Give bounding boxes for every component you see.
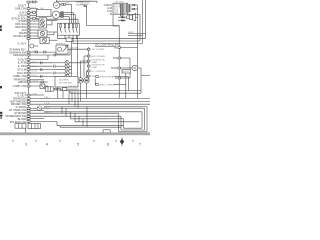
connector J1 pin 28 [27, 121, 57, 123]
TCM left rail extension [113, 14, 119, 26]
cascade drop 2 [65, 108, 67, 116]
wire feed bus y19 [36, 19, 78, 23]
gauge unit B1 box [39, 18, 47, 28]
bulb L4 [42, 38, 46, 42]
connector J1 pin 16 [27, 65, 53, 67]
blower drop 3 [68, 91, 70, 105]
connector J1 body line [28, 1, 30, 127]
relay block K1 box [58, 23, 80, 35]
svg-text:0.5 W: 0.5 W [44, 103, 51, 105]
svg-text:CRK/MAIN: CRK/MAIN [13, 53, 26, 57]
connector J1 pin 18 [27, 76, 53, 78]
inline connector on K2 feed [35, 51, 46, 53]
cascade row y121.8 [75, 121, 139, 123]
wire M2 a [59, 13, 73, 24]
net stub 2 [128, 35, 143, 37]
svg-text:0.85 BW: 0.85 BW [68, 86, 77, 88]
relay pins row 1 [96, 76, 129, 79]
TCM pin row 2 [120, 6, 131, 8]
svg-text:IL TNS: IL TNS [18, 64, 26, 68]
svg-text:BLW LO RELAY: BLW LO RELAY [100, 83, 116, 86]
connector J1 pin 27b [27, 118, 44, 120]
J3 pin 2 [113, 56, 130, 60]
resistor pack R2 [40, 84, 45, 89]
servo motor M3 [132, 65, 141, 71]
svg-text:12V POWER: 12V POWER [92, 49, 105, 51]
illumination lamp L5 [41, 61, 72, 65]
TCM pin row 6 [120, 14, 123, 16]
connector J1 pin 19 [27, 81, 48, 83]
TCM pin row 1 [120, 4, 137, 6]
svg-text:0.5 Y: 0.5 Y [32, 62, 38, 64]
svg-text:IL ATM: IL ATM [18, 61, 27, 65]
connector J1 pin 24 / bus C [27, 103, 150, 105]
connector J1 pin 10 [27, 32, 38, 34]
wire row y89 [54, 86, 78, 90]
svg-text:ILL CONTROL: ILL CONTROL [92, 71, 107, 73]
wire M1 to node top [57, 0, 72, 23]
connector J1 pin 13 [27, 51, 56, 53]
wire K1 out 1 [58, 35, 146, 39]
net label top [76, 2, 90, 6]
wire U2 pin2 stub [84, 56, 87, 78]
wire M3 down [141, 68, 150, 91]
svg-text:CH/BL OW: CH/BL OW [13, 84, 27, 88]
TCM pin row 4 [120, 10, 131, 12]
rear connector J3 rail [118, 44, 120, 98]
wire K1 to blower feed [77, 35, 79, 76]
connector J1 pin 17b [27, 72, 53, 74]
connector J1 pin 18b [27, 79, 44, 81]
controller U2 pin 5 [87, 70, 106, 73]
zone number 3 [25, 141, 28, 146]
zone tick 2 [35, 140, 37, 142]
cascade drop 7 [86, 107, 88, 128]
gauge unit B2 box [38, 30, 47, 37]
zone number 7 [139, 141, 142, 146]
wire right riser 3 [142, 0, 144, 44]
label plate N1 [122, 69, 130, 76]
cascade drop 3 [70, 112, 72, 119]
sheet edge mark lower [0, 112, 2, 119]
svg-text:0.5 G: 0.5 G [32, 75, 38, 77]
wire label above M1 feed [66, 3, 69, 5]
svg-text:0.5 W: 0.5 W [32, 17, 39, 19]
connector J1 pin 11 [27, 35, 38, 37]
illumination lamp L6 [54, 64, 72, 68]
sheet edge mark upper [0, 25, 2, 31]
TCM U1 box [113, 1, 128, 15]
left harness labels [5, 4, 26, 124]
svg-text:RH ILM: RH ILM [17, 71, 27, 75]
motor M1 [53, 2, 59, 8]
zone tick 4 [93, 140, 95, 142]
zone tick 1 [12, 140, 14, 142]
svg-text:0.85 L: 0.85 L [44, 97, 51, 99]
svg-text:0.5 B: 0.5 B [32, 1, 38, 3]
cascade drop 1 [61, 107, 63, 114]
svg-text:0.85 W: 0.85 W [32, 81, 40, 83]
TCM U1 inner labels [114, 3, 121, 14]
connector J1 pin 15 [27, 62, 53, 64]
relay K2 box [56, 43, 68, 54]
connector J1 pin 20 [27, 85, 48, 87]
wire right riser 2 [128, 15, 140, 42]
svg-text:0.85 R: 0.85 R [44, 112, 51, 114]
svg-text:0.85 WB: 0.85 WB [70, 47, 79, 49]
relay pins row 2 [96, 83, 126, 86]
bottom wire run b [60, 126, 121, 128]
svg-text:ONE OW: ONE OW [15, 6, 27, 10]
zone tick 5 [115, 140, 117, 142]
diode D1 [118, 16, 126, 19]
svg-text:B/UP: B/UP [129, 32, 135, 34]
J3 pin 1 [114, 45, 138, 49]
nest net D [44, 107, 147, 132]
zone number 6 [107, 141, 110, 146]
return bus y90 [60, 90, 141, 92]
shield terminal box [103, 130, 110, 133]
connector J1 pin 25b [27, 110, 44, 112]
sensor G2 [30, 44, 38, 48]
svg-text:HI RLY: HI RLY [123, 71, 130, 73]
controller U2 pin 2 [87, 55, 105, 58]
net stub 1 [128, 32, 146, 34]
J3 pin 4 [115, 76, 130, 80]
relay K1 contact 5 [76, 24, 78, 33]
connector J1 pin 14 [27, 54, 70, 57]
blower drop 2 [62, 91, 64, 99]
controller U2 pin 1 [87, 48, 104, 51]
zone tick 6 [132, 140, 134, 142]
blower drop 1 [57, 87, 59, 98]
svg-text:BLOWER: BLOWER [59, 80, 69, 82]
bottom wire run a [57, 122, 124, 126]
connector J1 pin 9 [27, 29, 38, 31]
nest net E [121, 108, 145, 130]
J3 pin 3 [111, 66, 132, 70]
wire K1 out 3 [73, 35, 143, 43]
connector J1 pin 5 [27, 18, 38, 20]
TCM pin column [121, 4, 123, 14]
bulb L1 [41, 19, 45, 23]
wire K1 out 2 [69, 35, 140, 41]
diode D2 [118, 19, 126, 22]
nest net F [44, 112, 142, 128]
connector J1 pin 14b riser row [27, 55, 48, 61]
ground block GB2 [28, 123, 40, 128]
lamp common riser [71, 63, 73, 77]
controller U2 pin 3 [87, 59, 105, 64]
connector J1 pin 23 / bus B [27, 101, 150, 103]
svg-text:SW: SW [113, 56, 118, 60]
wire top net to zone 5 [57, 1, 98, 3]
cascade drop 4 [74, 113, 76, 122]
svg-text:GND: GND [114, 12, 119, 14]
cascade row y118.8 [71, 118, 111, 120]
TCM pin row 5 [120, 12, 129, 14]
wire B1 out a [47, 20, 58, 22]
gauge unit B3 box [40, 37, 49, 43]
svg-text:BLW HI RELAY: BLW HI RELAY [100, 76, 116, 79]
bulb L2 [41, 23, 45, 27]
wire loop from TCM area down [87, 6, 120, 44]
controller U2 pin rail [88, 47, 90, 79]
wire fuse to lamp rail [71, 42, 73, 64]
blower unit box U3 [55, 76, 78, 87]
relay K1 contact 3 [68, 24, 70, 33]
svg-text:ST/AB ILM: ST/AB ILM [13, 34, 27, 38]
motor M2 blower [52, 11, 59, 18]
relay riser b [128, 77, 130, 91]
svg-text:J/B: J/B [40, 8, 44, 10]
connector J1 pin 17 [27, 69, 53, 71]
zone tick 3 [59, 140, 61, 142]
relay pin riser [94, 78, 96, 84]
wire B0 to M2 [51, 14, 52, 16]
relay riser a [125, 77, 127, 99]
illumination lamp L7 [41, 68, 72, 72]
blower drop 4 [71, 91, 73, 102]
J3 riser [129, 58, 131, 78]
diode assy D4 [84, 78, 89, 99]
wire B1 out b [47, 21, 52, 25]
cascade drop 5 [78, 116, 80, 122]
buzzer BZ1 [130, 13, 138, 20]
wire label K2 [70, 47, 79, 49]
connector J1 pin 12 [27, 38, 40, 40]
svg-text:AT 2WD: AT 2WD [116, 1, 124, 4]
svg-text:WS BLW OW: WS BLW OW [10, 120, 27, 124]
wire K1 out 4 [76, 35, 78, 39]
svg-text:A/BLW: A/BLW [18, 80, 27, 84]
svg-text:LEAD: LEAD [92, 61, 98, 64]
wire M2 c [59, 17, 69, 24]
connector on M2 wires [61, 12, 63, 18]
blower drop 6 [77, 91, 79, 109]
wire K2 to controller [68, 49, 87, 55]
svg-text:ACC POWER: ACC POWER [92, 55, 106, 58]
resistor R1 [127, 16, 131, 19]
ground block GB1 [15, 124, 26, 129]
svg-text:0.5 L: 0.5 L [32, 7, 38, 9]
wire right riser 4 [145, 0, 147, 39]
junction box B0 [37, 8, 52, 17]
connector C7 [45, 87, 53, 91]
left connector strip of K1 [57, 35, 59, 39]
connector J1 pin 6 [27, 20, 39, 22]
frame band [0, 133, 150, 136]
zone pointer diamond [120, 137, 124, 146]
connector J1 pin 21 [27, 94, 44, 96]
controller U2 pin 6 [87, 75, 96, 78]
relay K1 contact 2 [64, 24, 66, 33]
connector J1 pin 26 [27, 112, 119, 114]
TCM external labels [104, 3, 113, 16]
sheet edge mark middle [0, 86, 2, 88]
connector J1 pin 22 / bus A [27, 98, 150, 100]
TCM pin row 3 [120, 8, 137, 10]
svg-text:MOTOR RES: MOTOR RES [59, 82, 73, 84]
return bus y93 [70, 91, 141, 94]
svg-text:0.5 B: 0.5 B [32, 94, 38, 96]
zone number 4 [46, 141, 49, 146]
diode assy D3 [78, 78, 83, 102]
svg-text:B: B [110, 12, 112, 16]
svg-text:IL OUT: IL OUT [17, 41, 26, 45]
connector J1 pin 3 [27, 12, 38, 14]
wire right riser 1 [137, 5, 139, 98]
connector J1 pin 2 [27, 8, 38, 10]
A/C controller U2 header [95, 43, 119, 47]
wire B3 out [49, 39, 57, 41]
connector J1 pin 25 with inline sensor G1 [27, 106, 145, 111]
illumination lamp L8 [41, 74, 72, 78]
svg-text:LEAD: LEAD [92, 66, 98, 69]
relay K1 contact 1 [60, 24, 62, 33]
svg-text:A/BAG SYS: A/BAG SYS [80, 0, 92, 3]
blower drop 5 [74, 91, 76, 107]
wire B2 out [47, 32, 58, 35]
ground drop [25, 128, 27, 133]
svg-text:ST ILM: ST ILM [17, 67, 26, 71]
relay K1 contact 4 [72, 24, 74, 33]
wire lamp rail to controller [72, 62, 89, 64]
wire gauge labels [32, 1, 63, 114]
svg-text:0.5 R: 0.5 R [32, 71, 38, 73]
node labels top middle [80, 0, 92, 7]
controller U2 pin 4 [87, 64, 105, 69]
wire U2 pin3 stub [81, 61, 88, 78]
wire M2 b [60, 15, 76, 24]
svg-text:+B: +B [114, 45, 118, 49]
connector J1 pin 27 [27, 115, 121, 117]
illumination lamp L7b [54, 71, 72, 75]
svg-text:0.5 G: 0.5 G [44, 107, 50, 109]
connector J1 pin 4 [27, 15, 38, 17]
connector J1 pin 7 [27, 23, 39, 25]
connector J1 pin 1 [27, 1, 38, 3]
fuse box F1 [66, 38, 72, 41]
svg-text:0.5 L: 0.5 L [32, 66, 38, 68]
svg-text:MTR: MTR [111, 66, 117, 70]
zone number 5 [77, 141, 80, 146]
bulb L3 [40, 31, 44, 35]
wire U2 pin5 stub [86, 71, 89, 78]
connector J1 pin 8 [27, 26, 39, 28]
cascade drop 6 [82, 119, 84, 126]
